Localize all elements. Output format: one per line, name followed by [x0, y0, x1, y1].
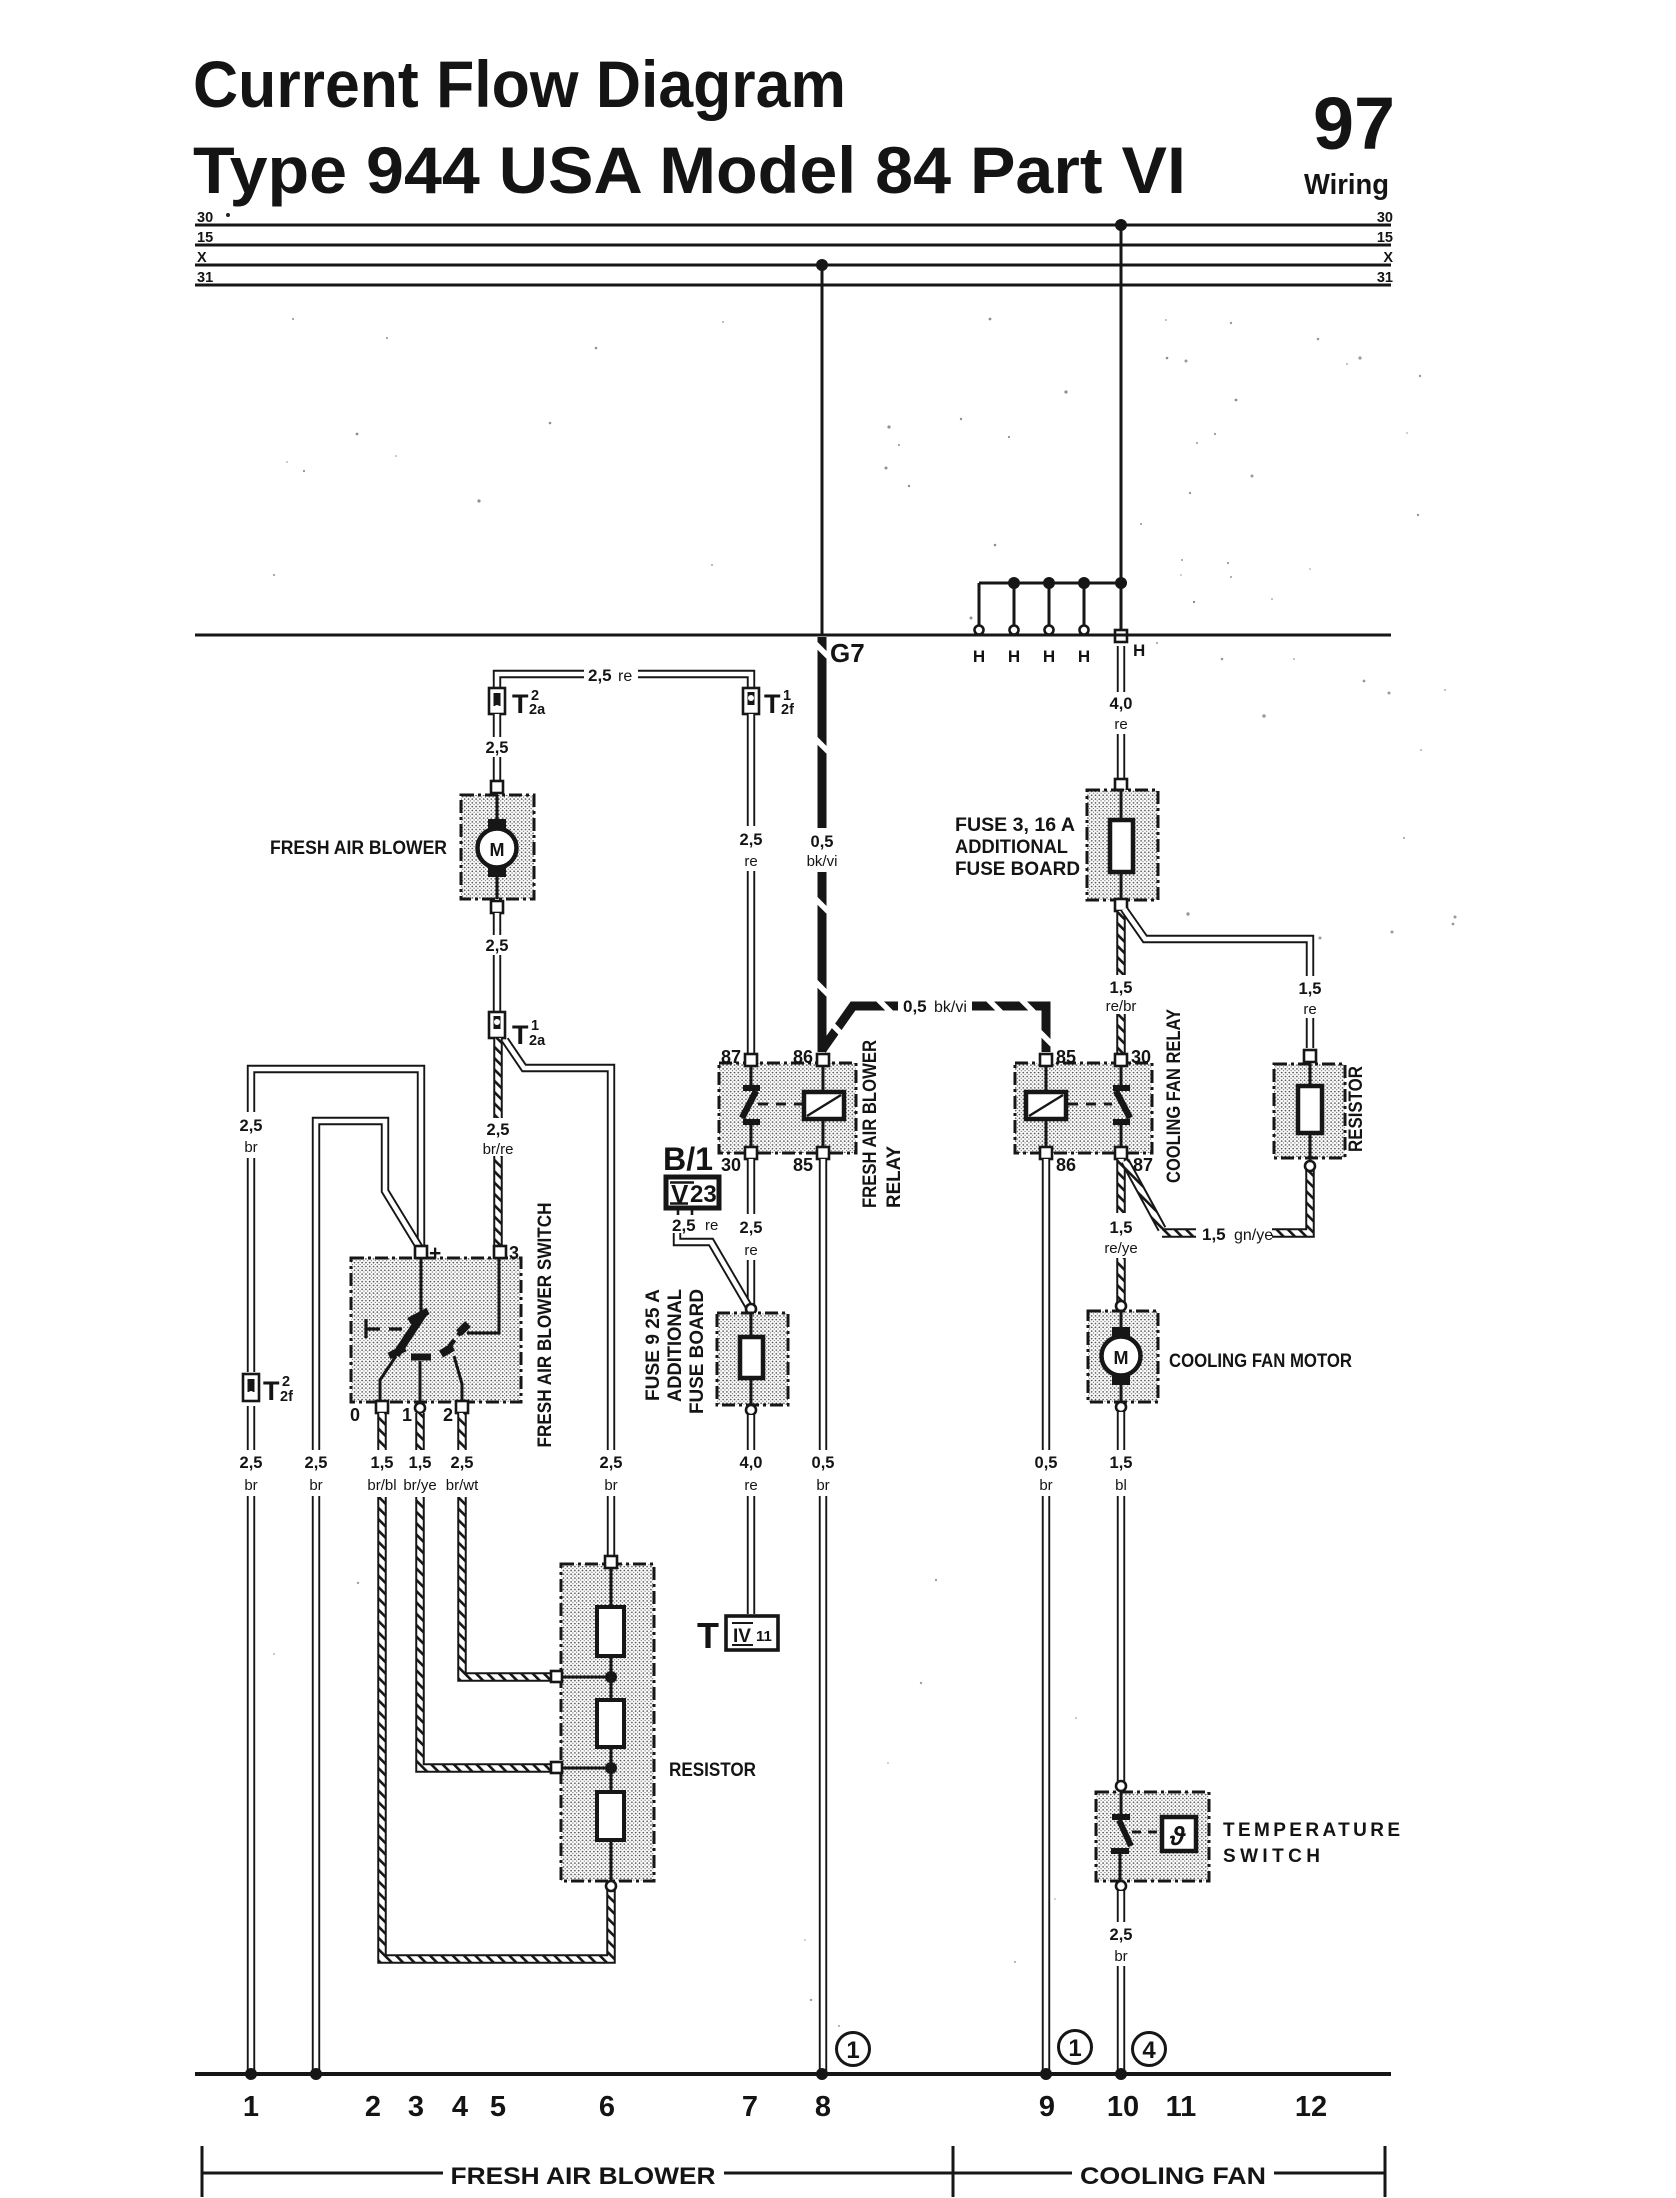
wire nest inner 2,5 br to + [316, 1121, 421, 2074]
hatched wire fuse3 to relay 30 1,5 re/br [1116, 911, 1126, 1053]
terminal 85 [1040, 1054, 1052, 1066]
svg-text:COOLING FAN MOTOR: COOLING FAN MOTOR [1169, 1351, 1352, 1372]
wire temp switch to ground 2,5 br [1117, 1891, 1125, 2074]
svg-text:8: 8 [815, 2091, 831, 2123]
resistor (cooling fan) box [1274, 1064, 1345, 1158]
terminal 85 [817, 1147, 829, 1159]
terminal H2 [1010, 626, 1019, 635]
motor M1 symbol [478, 795, 517, 899]
svg-text:2,5: 2,5 [672, 1216, 696, 1235]
bus bar 31 [195, 284, 1391, 287]
svg-text:11: 11 [756, 1628, 772, 1645]
ground junction 8 [816, 2068, 828, 2080]
svg-text:1,5: 1,5 [1110, 1454, 1133, 1472]
svg-text:ADDITIONAL: ADDITIONAL [665, 1289, 686, 1402]
svg-text:30: 30 [721, 1155, 741, 1175]
terminal resistor top [605, 1556, 617, 1568]
resistor symbol [1298, 1062, 1322, 1162]
connector T2a pin2 [489, 688, 505, 714]
svg-text:0,5: 0,5 [903, 997, 927, 1016]
svg-text:9: 9 [1039, 2091, 1055, 2123]
svg-text:2: 2 [365, 2091, 381, 2123]
wire branch T2a to resistor top 2,5 br [505, 1040, 611, 1558]
svg-text:H: H [1078, 647, 1090, 666]
svg-text:1: 1 [846, 2037, 859, 2064]
svg-text:3: 3 [408, 2091, 424, 2123]
svg-text:ADDITIONAL: ADDITIONAL [955, 837, 1068, 858]
gap for bk/vi label [898, 993, 972, 1015]
svg-text:X: X [197, 250, 207, 266]
wire relay 30 to fuse9 2,5 re [747, 1159, 755, 1305]
svg-text:TEMPERATURE: TEMPERATURE [1223, 1820, 1400, 1841]
svg-text:X: X [1383, 250, 1393, 266]
svg-text:2,5: 2,5 [486, 739, 509, 757]
fuse F3 box [1087, 790, 1158, 900]
fuse F3 symbol [1110, 791, 1133, 899]
gap [483, 935, 511, 955]
switch interior [366, 1258, 499, 1402]
svg-text:2a: 2a [529, 1033, 546, 1049]
gap [1106, 1922, 1137, 1966]
svg-text:H: H [1133, 641, 1145, 660]
svg-text:T: T [512, 689, 529, 719]
ground rail [195, 2072, 1391, 2076]
svg-text:30: 30 [197, 210, 213, 226]
svg-text:2,5: 2,5 [740, 1219, 763, 1237]
gap [736, 1214, 767, 1260]
terminal temp switch bottom [1116, 1881, 1126, 1891]
svg-text:br/wt: br/wt [446, 1477, 479, 1494]
svg-text:15: 15 [1377, 230, 1393, 246]
svg-text:1: 1 [402, 1405, 412, 1425]
svg-text:H: H [1043, 647, 1055, 666]
junction comb 2 [1008, 577, 1020, 589]
terminal + [415, 1246, 427, 1258]
svg-text:Current Flow Diagram: Current Flow Diagram [193, 47, 846, 121]
svg-text:re: re [705, 1217, 718, 1234]
gap [1106, 1450, 1137, 1496]
terminal motor bottom [1116, 1402, 1126, 1412]
svg-text:br: br [1114, 1948, 1127, 1965]
terminal temp switch top [1116, 1781, 1126, 1791]
svg-text:ϑ: ϑ [1169, 1821, 1186, 1851]
svg-text:2a: 2a [529, 702, 546, 718]
svg-text:30: 30 [1131, 1047, 1151, 1067]
gap left wires labels [233, 1450, 270, 1496]
terminal H3 [1045, 626, 1054, 635]
junction resistor mid [605, 1762, 617, 1774]
hatched wire relay 87 to resistor gn/ye [1125, 1161, 1310, 1233]
terminal motor bottom [491, 901, 503, 913]
junction resistor upper [605, 1671, 617, 1683]
relay switch contact 30-87 [1113, 1066, 1130, 1150]
svg-text:bk/vi: bk/vi [807, 853, 838, 870]
ground code circle 1 (col 8) [837, 2033, 870, 2066]
terminal 87 [745, 1054, 757, 1066]
svg-text:31: 31 [1377, 270, 1393, 286]
svg-text:5: 5 [490, 2091, 506, 2123]
fuse F9 symbol [740, 1314, 763, 1404]
svg-text:bl: bl [1115, 1477, 1127, 1494]
ground junction 1 [245, 2068, 257, 2080]
wire from bus 30 down [1120, 225, 1123, 635]
svg-text:T: T [764, 689, 781, 719]
svg-text:2,5: 2,5 [240, 1117, 263, 1135]
terminal fuse3 top [1115, 779, 1127, 791]
svg-text:86: 86 [1056, 1155, 1076, 1175]
wire bus30 to fuse3 4,0 re [1117, 646, 1125, 781]
wire from bus X down to G7 [821, 265, 824, 635]
svg-text:31: 31 [197, 270, 213, 286]
connector T2f pin2 [237, 1372, 266, 1406]
svg-text:4: 4 [1142, 2037, 1156, 2064]
svg-text:FUSE BOARD: FUSE BOARD [955, 859, 1080, 880]
svg-text:re: re [1114, 716, 1127, 733]
terminal resistor top [1304, 1050, 1316, 1062]
svg-text:1,5: 1,5 [1299, 980, 1322, 998]
svg-text:Wiring: Wiring [1304, 169, 1389, 201]
svg-text:FRESH AIR BLOWER SWITCH: FRESH AIR BLOWER SWITCH [535, 1203, 556, 1448]
gap for label [584, 662, 638, 685]
relay switch contact 87-30 [742, 1066, 760, 1150]
svg-text:COOLING FAN: COOLING FAN [1080, 2163, 1266, 2190]
svg-text:M: M [490, 840, 505, 860]
terminal H1 [975, 626, 984, 635]
gap [1031, 1450, 1062, 1496]
svg-text:br/re: br/re [483, 1141, 514, 1158]
temp switch contact [1111, 1792, 1131, 1881]
svg-text:br: br [1039, 1477, 1052, 1494]
wire top run T2a to T2f 2,5 re [497, 674, 751, 690]
node G7 striped wire bk/vi [818, 637, 827, 1052]
svg-text:4,0: 4,0 [1110, 695, 1133, 713]
separator line [195, 634, 1391, 637]
svg-text:M: M [1114, 1348, 1129, 1368]
svg-text:COOLING FAN RELAY: COOLING FAN RELAY [1164, 1009, 1185, 1183]
svg-text:15: 15 [197, 230, 213, 246]
junction on bus X [816, 259, 828, 271]
svg-text:2,5: 2,5 [486, 937, 509, 955]
svg-text:br: br [309, 1477, 322, 1494]
svg-text:T: T [697, 1615, 719, 1656]
svg-text:1: 1 [531, 1018, 539, 1034]
svg-text:1,5: 1,5 [1202, 1225, 1226, 1244]
svg-text:12: 12 [1295, 2091, 1327, 2123]
gap on vertical bk/vi wire [806, 828, 840, 872]
svg-text:1: 1 [1068, 2035, 1081, 2062]
svg-text:T: T [263, 1376, 280, 1406]
terminal 3 [494, 1246, 506, 1258]
wire motor to T2a pin1 2,5 [493, 913, 501, 1012]
terminal resistor left mid [551, 1762, 562, 1773]
svg-text:87: 87 [721, 1047, 741, 1067]
svg-text:RELAY: RELAY [884, 1146, 905, 1208]
ground code circle 1 (col 9) [1059, 2031, 1092, 2064]
svg-text:2,5: 2,5 [740, 831, 763, 849]
svg-text:br: br [244, 1477, 257, 1494]
svg-text:gn/ye: gn/ye [1234, 1227, 1273, 1244]
svg-text:85: 85 [793, 1155, 813, 1175]
terminal 86 [817, 1054, 829, 1066]
svg-text:H: H [973, 647, 985, 666]
svg-text:0,5: 0,5 [811, 833, 834, 851]
svg-text:re/ye: re/ye [1104, 1240, 1137, 1257]
H-comb drop 3 [1048, 583, 1051, 626]
svg-text:2,5: 2,5 [240, 1454, 263, 1472]
wire label 2,5 re [666, 1215, 724, 1233]
terminal 86 [1040, 1147, 1052, 1159]
svg-text:2,5: 2,5 [588, 666, 612, 685]
wire motor to temp switch 1,5 bl [1117, 1412, 1125, 1781]
svg-text:1,5: 1,5 [1110, 1219, 1133, 1237]
bus bar 15 [195, 244, 1391, 247]
relay coil [804, 1066, 844, 1150]
hatched wire relay 87 to motor 1,5 re/ye [1116, 1159, 1126, 1302]
ground junction 2 [310, 2068, 322, 2080]
svg-text:B/1: B/1 [663, 1141, 713, 1177]
speck [226, 213, 230, 217]
svg-text:3: 3 [509, 1243, 519, 1263]
svg-text:1,5: 1,5 [409, 1454, 432, 1472]
relay coil [1026, 1066, 1066, 1150]
resistor R block box [561, 1564, 654, 1881]
svg-text:br: br [244, 1139, 257, 1156]
terminal 2 [456, 1401, 468, 1413]
gap [736, 1450, 767, 1496]
wire fuse3 branch to resistor 1,5 re [1124, 909, 1310, 1048]
svg-text:0: 0 [350, 1405, 360, 1425]
wire fuse9 to T IV11 4,0 re [747, 1415, 755, 1614]
cooling fan motor box [1088, 1311, 1158, 1402]
fresh air blower motor box [461, 795, 534, 899]
wire T2a to motor 2,5 [493, 714, 501, 783]
gap [483, 737, 511, 757]
wire relay 86 down 0,5 br [1042, 1159, 1050, 2074]
svg-text:0,5: 0,5 [1035, 1454, 1058, 1472]
wire V23 to fuse9 2,5 re [678, 1209, 692, 1222]
cooling fan relay box [1015, 1063, 1152, 1153]
H-comb bus [979, 582, 1121, 585]
connector T IV11 [697, 1615, 778, 1656]
section bracket right tick [1384, 2146, 1387, 2197]
connector V23 box [666, 1177, 719, 1209]
terminal 87 [1115, 1147, 1127, 1159]
hatched wire T2a to switch 3 2,5 br/re [493, 1038, 503, 1247]
fuse F9 box [717, 1313, 788, 1405]
svg-text:2,5: 2,5 [600, 1454, 623, 1472]
terminal fuse9 top [746, 1304, 756, 1314]
svg-text:2,5: 2,5 [487, 1121, 510, 1139]
ground junction 9 [1040, 2068, 1052, 2080]
gap [808, 1450, 839, 1496]
svg-text:23: 23 [690, 1181, 717, 1208]
hatched wire 0 br/bl to resistor bottom [382, 1413, 611, 1959]
svg-text:0,5: 0,5 [812, 1454, 835, 1472]
junction on bus 30 [1115, 219, 1127, 231]
gap nest outer label [233, 1112, 270, 1158]
svg-text:br: br [604, 1477, 617, 1494]
svg-text:1,5: 1,5 [1110, 979, 1133, 997]
hatched wire 2 br/wt to resistor upper [462, 1413, 552, 1677]
terminal 0 [376, 1401, 388, 1413]
svg-text:bk/vi: bk/vi [934, 999, 967, 1016]
bus bar 30 [195, 224, 1391, 227]
svg-text:FUSE BOARD: FUSE BOARD [687, 1289, 708, 1414]
svg-text:RESISTOR: RESISTOR [1346, 1066, 1367, 1152]
junction comb 4 [1078, 577, 1090, 589]
terminal 30 [745, 1147, 757, 1159]
svg-text:4,0: 4,0 [740, 1454, 763, 1472]
svg-text:2f: 2f [781, 702, 794, 718]
bus bar X [195, 264, 1391, 267]
svg-text:2: 2 [443, 1405, 453, 1425]
svg-text:br/ye: br/ye [403, 1477, 436, 1494]
wire T2f to relay 87 2,5 re [747, 714, 755, 1053]
svg-text:RESISTOR: RESISTOR [669, 1760, 756, 1781]
gap [592, 1450, 630, 1496]
svg-text:2f: 2f [280, 1389, 293, 1405]
svg-text:1: 1 [243, 2091, 259, 2123]
svg-text:2,5: 2,5 [305, 1454, 328, 1472]
H-comb drop 2 [1013, 583, 1016, 626]
terminal resistor bottom [606, 1881, 616, 1891]
junction comb 3 [1043, 577, 1055, 589]
white slashes on bk/vi wire [814, 642, 1055, 1047]
svg-text:FRESH AIR BLOWER: FRESH AIR BLOWER [451, 2163, 716, 2190]
striped wire branch to cooling fan relay 85 [822, 1006, 1046, 1052]
terminal H4 [1080, 626, 1089, 635]
svg-text:re: re [744, 853, 757, 870]
svg-text:re: re [618, 668, 632, 685]
svg-text:10: 10 [1107, 2091, 1139, 2123]
temp sensor symbol box [1162, 1817, 1196, 1851]
svg-text:IV: IV [733, 1626, 751, 1647]
svg-text:85: 85 [1056, 1047, 1076, 1067]
temp switch dashed link [1132, 1831, 1160, 1834]
gap [736, 826, 767, 871]
gap [1106, 692, 1137, 734]
motor M2 symbol [1102, 1311, 1141, 1402]
svg-text:97: 97 [1313, 82, 1395, 165]
junction comb 5 [1115, 577, 1127, 589]
svg-text:re: re [744, 1477, 757, 1494]
gap [1294, 976, 1326, 1018]
ground junction 10 [1115, 2068, 1127, 2080]
svg-text:6: 6 [599, 2091, 615, 2123]
terminal H5 square [1115, 630, 1127, 642]
svg-text:86: 86 [793, 1047, 813, 1067]
svg-text:+: + [429, 1242, 441, 1265]
svg-text:2,5: 2,5 [451, 1454, 474, 1472]
svg-text:11: 11 [1166, 2091, 1197, 2123]
terminal fuse9 bottom [746, 1405, 756, 1415]
relay link dashed [1068, 1103, 1112, 1106]
svg-text:2: 2 [282, 1374, 290, 1390]
terminal resistor bottom [1305, 1161, 1315, 1171]
svg-text:re/br: re/br [1106, 998, 1137, 1015]
connector T2f pin1 [743, 688, 759, 714]
svg-text:2,5: 2,5 [1110, 1926, 1133, 1944]
hatched wire 1 br/ye to resistor mid [420, 1413, 552, 1768]
svg-text:Type 944 USA Model 84 Part V: Type 944 USA Model 84 Part VI [193, 133, 1186, 207]
svg-text:FRESH AIR BLOWER: FRESH AIR BLOWER [270, 838, 447, 859]
ground code circle 4 (col 10) [1133, 2033, 1166, 2066]
section line cooling fan [953, 2172, 1385, 2175]
fresh air blower switch box [351, 1258, 521, 1402]
terminal motor top [1116, 1301, 1126, 1311]
svg-text:30: 30 [1377, 210, 1393, 226]
svg-text:FRESH AIR BLOWER: FRESH AIR BLOWER [860, 1040, 881, 1208]
svg-text:re: re [744, 1242, 757, 1259]
svg-text:H: H [1008, 647, 1020, 666]
wire relay 85 down 0,5 br [819, 1159, 827, 2074]
svg-text:FUSE 9 25 A: FUSE 9 25 A [643, 1289, 664, 1401]
svg-text:4: 4 [452, 2091, 468, 2123]
terminal fuse3 bottom [1115, 899, 1127, 911]
resistor chain [562, 1568, 624, 1882]
temperature switch box [1096, 1792, 1209, 1881]
svg-text:re: re [1303, 1001, 1316, 1018]
relay link dashed [758, 1103, 804, 1106]
terminal resistor left upper [551, 1671, 562, 1682]
H-comb drop 1 [978, 583, 981, 626]
svg-text:7: 7 [742, 2091, 758, 2123]
svg-text:FUSE 3, 16 A: FUSE 3, 16 A [955, 815, 1075, 836]
section bracket left tick [201, 2146, 204, 2197]
fresh air blower relay box [719, 1063, 856, 1153]
section bracket mid tick [952, 2146, 955, 2197]
svg-text:G7: G7 [830, 638, 865, 668]
svg-text:br/bl: br/bl [367, 1477, 396, 1494]
svg-text:br: br [816, 1477, 829, 1494]
connector T2a pin1 [489, 1012, 505, 1038]
terminal 30 [1115, 1054, 1127, 1066]
wire nest outer 2,5 br to + [251, 1069, 421, 2074]
H-comb drop 4 [1083, 583, 1086, 626]
terminal 1 [415, 1403, 425, 1413]
svg-text:1,5: 1,5 [371, 1454, 394, 1472]
section line fresh air blower [202, 2172, 953, 2175]
terminal motor top [491, 781, 503, 793]
svg-text:T: T [512, 1020, 529, 1050]
